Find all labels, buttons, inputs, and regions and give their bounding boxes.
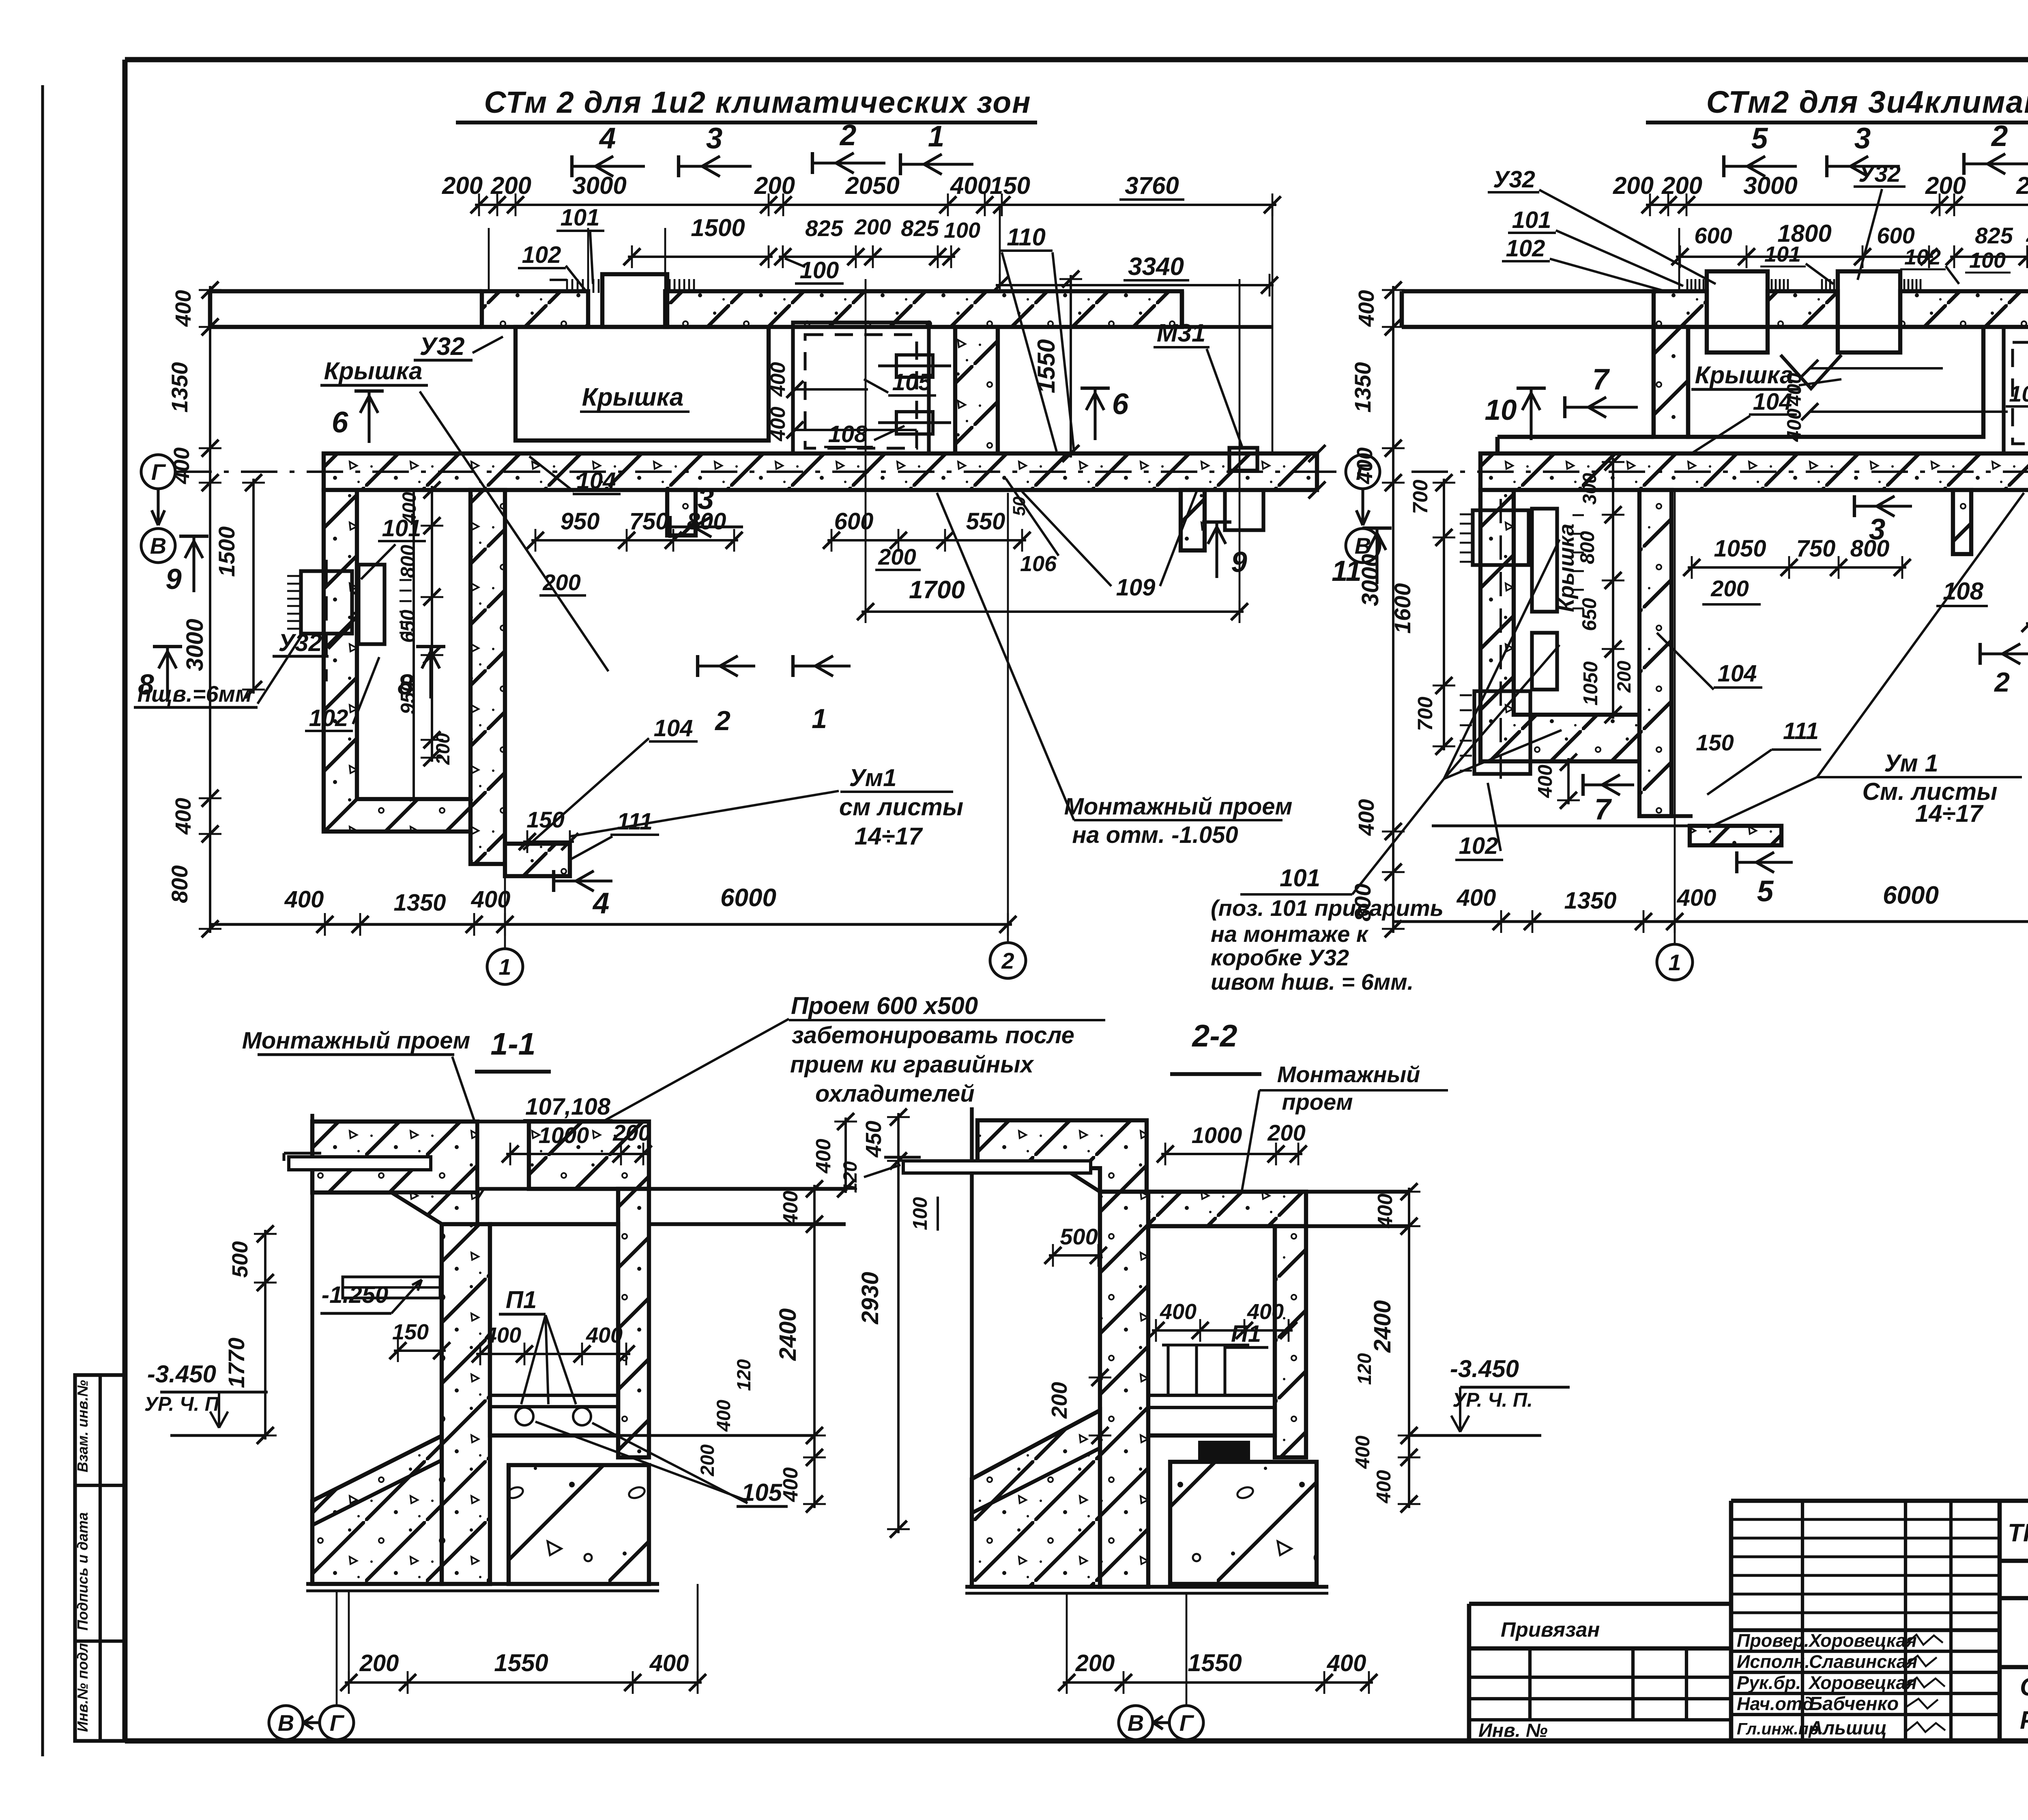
svg-text:400: 400 [484,1323,521,1347]
plan2 bottom slab strip [1690,826,1781,845]
s22 right dim chain [1408,1188,1410,1508]
svg-text:700: 700 [1414,696,1437,731]
s22 funnel slope [1071,1173,1100,1192]
plan1 mid dim row left [531,539,738,541]
svg-text:100: 100 [800,257,839,284]
plan2 axis 1 circle [1674,876,1676,944]
svg-text:200: 200 [696,1444,718,1476]
s22 foundation diagonal band [972,1410,1100,1587]
svg-text:3000: 3000 [1357,554,1384,606]
svg-text:100: 100 [1969,248,2006,273]
svg-text:104: 104 [1718,660,1757,687]
s11 400 400 dims [476,1353,630,1355]
svg-text:1-1: 1-1 [490,1027,535,1061]
svg-text:прием ки гравийных: прием ки гравийных [790,1051,1035,1078]
svg-text:Нач.отд: Нач.отд [1737,1693,1813,1714]
plan1 pier under corridor 1 [667,490,696,535]
svg-text:В: В [1128,1710,1144,1736]
svg-text:400: 400 [171,290,195,327]
svg-text:1000: 1000 [539,1122,589,1148]
svg-text:1: 1 [812,703,827,734]
svg-text:150: 150 [392,1320,429,1344]
svg-text:400: 400 [398,492,420,524]
svg-text:400: 400 [586,1323,623,1347]
plan2 top-left open room outline [1402,289,1654,294]
svg-text:106: 106 [1020,552,1057,576]
svg-text:У32: У32 [1493,166,1535,193]
plan1 corridor band [324,453,1317,490]
svg-text:Рук.бр.: Рук.бр. [1737,1672,1801,1693]
svg-text:102: 102 [1506,235,1545,262]
s11 chamber floor lines [490,1394,618,1397]
s22 right wall hatched [1275,1226,1306,1457]
svg-text:3: 3 [698,483,714,516]
svg-text:400: 400 [1677,885,1716,911]
svg-text:-3.450: -3.450 [1450,1355,1519,1382]
sheet frame [125,57,2028,62]
svg-text:1500: 1500 [691,214,745,241]
svg-text:Инв.№ подл.: Инв.№ подл. [74,1639,91,1732]
svg-text:1700: 1700 [909,576,965,604]
plan1 axis circle G [141,455,175,489]
svg-text:101: 101 [1764,242,1801,266]
svg-text:2050: 2050 [2016,172,2028,199]
s11 ground double line [306,1582,659,1586]
svg-text:коробке У32: коробке У32 [1211,945,1349,970]
plan1 axis 2 circle [1007,493,1009,943]
svg-text:ТП А-II-600-338.86: ТП А-II-600-338.86 [2008,1519,2028,1547]
svg-text:400: 400 [1457,885,1496,911]
s22 500 dim [1049,1254,1102,1257]
svg-text:200: 200 [442,172,483,199]
svg-text:Провер.: Провер. [1737,1630,1809,1651]
plan2 axis circle G [1346,455,1380,489]
svg-text:800: 800 [397,545,419,578]
s11 ledge white strip [289,1157,431,1170]
plan1 pier under corridor 2 [1181,490,1205,550]
svg-text:104: 104 [654,715,693,741]
svg-text:см листы: см листы [839,793,963,821]
svg-text:на монтаже к: на монтаже к [1211,921,1369,947]
plan2 top dimension row 2 [1676,256,1933,258]
svg-text:200: 200 [490,172,531,199]
svg-text:200: 200 [1613,661,1635,693]
svg-text:Монтажный проем: Монтажный проем [242,1027,470,1054]
s22 top dims 1000 200 [1161,1153,1302,1155]
svg-text:2400: 2400 [1369,1300,1396,1353]
svg-text:400: 400 [1247,1300,1284,1324]
svg-text:5: 5 [1757,875,1774,908]
plan1 top dimension row 1 [475,204,1276,206]
svg-text:Хоровецкая: Хоровецкая [1808,1630,1917,1651]
svg-text:Г: Г [330,1710,345,1736]
s22 left dim chain [897,1113,900,1533]
svg-text:105: 105 [2009,381,2028,406]
svg-text:400: 400 [170,447,194,484]
svg-text:Крышка: Крышка [324,357,423,385]
svg-text:400: 400 [713,1400,734,1432]
svg-text:Разрезы 1-1, 2-2.: Разрезы 1-1, 2-2. [2020,1706,2028,1734]
s11 150 dim [394,1349,446,1352]
svg-text:6: 6 [1112,388,1129,421]
svg-text:200: 200 [542,569,580,595]
svg-text:1000: 1000 [1192,1122,1242,1148]
svg-text:200: 200 [754,172,795,199]
plan1 bolts 105 108 [896,355,933,377]
svg-text:100: 100 [944,218,980,243]
plan2 floor line left [1432,824,1690,827]
svg-text:У32: У32 [420,333,465,361]
svg-text:3: 3 [1854,122,1871,155]
s11 level line right [618,1434,815,1437]
svg-text:200: 200 [359,1650,399,1676]
plan1 axis circle V [141,529,175,563]
svg-text:600: 600 [1877,223,1914,248]
svg-text:200: 200 [612,1120,651,1145]
svg-text:1600: 1600 [1390,583,1415,634]
svg-text:Подпись и дата: Подпись и дата [74,1512,91,1631]
svg-text:Крышка: Крышка [1695,361,1794,389]
svg-text:120: 120 [1353,1353,1375,1385]
svg-text:Славинская: Славинская [1809,1651,1917,1672]
svg-text:400: 400 [1373,1470,1395,1504]
svg-text:7: 7 [1592,363,1610,396]
svg-text:101: 101 [561,204,600,231]
s22 chamber [1148,1226,1275,1435]
plan1 well box U32 [602,274,667,327]
svg-text:108: 108 [1943,578,1984,605]
plan1 G to V arrow [157,489,159,525]
svg-text:102: 102 [1904,245,1941,269]
s11 right slab lines [649,1187,846,1190]
s11 top ceiling hatched block [312,1122,477,1193]
svg-text:120: 120 [733,1359,754,1391]
s11 left dim chain [264,1230,266,1440]
svg-text:2: 2 [1994,667,2010,698]
svg-text:400: 400 [1783,373,1805,406]
svg-text:110: 110 [1007,223,1046,251]
s22 black bracket [1200,1442,1248,1460]
svg-text:1500: 1500 [214,526,239,577]
svg-text:2: 2 [1991,120,2008,153]
svg-text:Альшиц: Альшиц [1809,1717,1887,1738]
plan1 M31 box [1229,448,1257,471]
svg-text:У32: У32 [278,629,322,656]
svg-text:200: 200 [432,733,453,765]
svg-text:400: 400 [779,1190,802,1225]
plan1 bottom dim row [210,923,1012,926]
svg-text:300: 300 [1579,473,1600,505]
svg-text:6000: 6000 [1883,881,1939,909]
svg-text:600: 600 [834,508,874,535]
svg-text:500: 500 [1060,1224,1098,1249]
svg-text:Хоровецкая: Хоровецкая [1808,1672,1917,1693]
s22 anchor comb P1 [1167,1345,1169,1395]
svg-text:М31: М31 [1157,319,1206,347]
plan1 axis 1 circle [504,876,506,949]
s22 left wall line [970,1107,973,1587]
svg-text:650: 650 [397,610,419,643]
plan2 top dimension row 1 [1646,204,2028,206]
plan2 dim 1700 [2026,622,2028,625]
s22 ground double line [965,1585,1328,1588]
svg-text:1: 1 [498,954,511,980]
svg-text:3000: 3000 [182,619,208,671]
plan2 left lower wall [1480,490,1639,761]
s22 top hatched mass [977,1120,1147,1192]
plan2 funnel V between wells [1781,355,1841,389]
plan2 axis circle V [1346,529,1380,563]
svg-text:Крышка: Крышка [582,383,684,411]
s22 foundation coarse block [1170,1462,1317,1584]
svg-text:200: 200 [1047,1382,1072,1419]
svg-text:111: 111 [1783,718,1819,744]
svg-text:450: 450 [861,1121,886,1158]
svg-text:1050: 1050 [1580,661,1602,705]
title block grid [1731,1499,2028,1503]
plan1 left vertical dim chain [209,286,211,933]
plan1 mid vertical wall [470,490,505,864]
s22 right slab lines [1306,1190,1409,1193]
svg-text:650: 650 [1579,598,1600,631]
svg-text:500: 500 [228,1241,252,1278]
svg-text:проем: проем [1282,1089,1353,1115]
svg-text:2930: 2930 [857,1272,883,1324]
plan1 section 2 mark middle [698,664,755,667]
plan1 left lower wall L-shape [324,490,470,832]
svg-text:на отм. -1.050: на отм. -1.050 [1072,822,1238,848]
svg-text:5: 5 [1751,122,1768,155]
svg-text:УР. Ч. П.: УР. Ч. П. [1452,1389,1533,1411]
plan2 montage dashed square [2004,327,2028,460]
svg-text:10: 10 [1485,394,1517,426]
svg-text:2: 2 [714,705,730,736]
svg-text:200: 200 [1613,172,1654,199]
svg-text:Ум1: Ум1 [849,764,897,791]
svg-text:П1: П1 [1231,1321,1261,1347]
svg-text:3760: 3760 [1125,172,1179,199]
s11 central stem hatched [442,1224,490,1584]
s22 central stem hatched [1100,1192,1148,1587]
svg-text:102: 102 [522,242,561,268]
svg-text:1050: 1050 [1714,535,1766,562]
svg-text:1350: 1350 [393,890,446,916]
s11 bottom dims [345,1681,702,1684]
svg-text:107,108: 107,108 [525,1094,610,1120]
svg-text:200: 200 [1267,1120,1305,1145]
svg-text:150: 150 [1696,730,1734,755]
s11 top dims 1000 200 [506,1153,647,1155]
svg-text:550: 550 [966,508,1005,535]
svg-text:200: 200 [1925,172,1966,199]
svg-text:800: 800 [1577,531,1598,564]
svg-text:Г: Г [151,459,166,485]
svg-text:Монтажный: Монтажный [1277,1061,1420,1087]
s11 left wall line [310,1114,314,1584]
svg-text:3: 3 [1869,513,1886,546]
plan1 section 1 mark middle [793,664,851,667]
svg-text:400: 400 [766,362,789,397]
svg-text:3: 3 [706,122,723,155]
plan1 dim 1700 [861,610,1244,613]
plan2 mid dim row left [1688,566,1906,569]
svg-text:1350: 1350 [1350,362,1375,413]
svg-text:400: 400 [284,886,324,913]
s11 axis circles bottom [269,1706,303,1740]
svg-text:8: 8 [138,669,154,701]
svg-text:700: 700 [1409,479,1432,514]
svg-text:825: 825 [805,215,843,241]
plan1 montage opening dashed square [793,322,929,460]
plan1 dim chain room heights [431,486,433,762]
svg-text:400: 400 [1354,290,1379,327]
svg-text:Инв. №: Инв. № [1478,1719,1548,1741]
plan2 bottom section mark 5 [1737,861,1793,864]
svg-text:В: В [278,1710,294,1736]
svg-text:Проем 600 х500: Проем 600 х500 [791,992,978,1019]
plan1 inner room line [412,490,415,799]
plan2 wall left of kryshka room [1654,327,1688,437]
svg-text:200: 200 [1075,1650,1115,1676]
svg-text:4: 4 [599,122,616,155]
svg-text:400: 400 [1534,765,1556,798]
svg-text:108: 108 [828,421,868,447]
s11 top right band hatched [529,1122,649,1189]
s22 ledge strip [903,1161,1091,1173]
svg-text:400: 400 [1353,447,1377,484]
svg-text:101: 101 [1512,207,1551,233]
svg-text:1550: 1550 [1033,339,1060,393]
svg-text:Крышка: Крышка [1554,524,1579,612]
plan1 left top wall outline [210,289,482,294]
svg-text:1350: 1350 [167,362,192,413]
svg-text:400: 400 [171,798,195,835]
plan2 well boxes [1707,271,1768,352]
svg-text:2-2: 2-2 [1191,1019,1237,1053]
svg-text:В: В [150,533,166,559]
svg-text:750: 750 [1796,535,1836,562]
svg-text:У32: У32 [1858,161,1901,187]
svg-text:3000: 3000 [572,172,626,199]
svg-text:800: 800 [167,865,192,903]
svg-text:950: 950 [561,508,600,535]
svg-text:УР. Ч. П: УР. Ч. П [144,1393,220,1415]
plan1 U32 connector cluster [301,571,352,634]
svg-text:(поз. 101 приварить: (поз. 101 приварить [1211,895,1444,921]
svg-text:1: 1 [1668,950,1681,975]
s11 foundation coarse block [509,1465,649,1584]
plan1 1550 vertical dim [1070,275,1072,458]
plan1 axis G dash line [175,471,1334,473]
plan2 kryshka room [1688,327,1983,437]
svg-text:Монтажный проем: Монтажный проем [1064,793,1293,820]
svg-text:950: 950 [397,681,419,714]
svg-text:2050: 2050 [845,172,899,199]
svg-text:109: 109 [1116,574,1156,601]
svg-text:104: 104 [577,468,616,494]
plan2 corridor band [1480,453,2028,490]
svg-text:400: 400 [1160,1300,1197,1324]
svg-text:200: 200 [854,215,891,239]
plan1 mid dim row right [827,539,1026,541]
plan2 extension verticals [1674,490,1676,876]
plan2 mid vertical wall [1639,490,1671,816]
s22 bottom dims [1063,1681,1373,1684]
s11 right column hatched [618,1189,649,1457]
svg-text:охладителей: охладителей [815,1081,975,1107]
svg-text:2: 2 [1001,948,1014,973]
s22 band over chamber hatched [1148,1192,1306,1226]
s11 anchor circles [516,1407,533,1425]
svg-text:2400: 2400 [775,1308,801,1361]
plan2 400 dim lower [1567,758,1570,804]
plan2 section mark 7 bottom [1583,783,1634,786]
svg-text:забетонировать после: забетонировать после [792,1022,1074,1049]
svg-text:102: 102 [309,705,348,731]
svg-text:400: 400 [1327,1650,1366,1676]
svg-text:Г: Г [1179,1710,1194,1736]
plan2 left vertical dim chain [1392,286,1394,933]
plan2 U32 connector stack [1473,510,1529,565]
svg-text:825: 825 [1975,223,2013,248]
s22 chamber floor lines [1148,1394,1275,1397]
svg-text:1350: 1350 [1564,887,1616,914]
svg-text:9: 9 [165,563,182,595]
plan2 axis G dash line [1411,471,2028,473]
plan2 pier under corridor [1953,490,1971,554]
svg-text:швом hшв. = 6мм.: швом hшв. = 6мм. [1211,969,1414,995]
left sidebar table [75,1375,125,1741]
plan2 top slab band hatched [1654,291,1707,327]
plan1 top slab band hatched [482,291,588,327]
svg-text:400: 400 [766,406,789,441]
s11 right dim chain [813,1185,816,1508]
svg-text:3000: 3000 [1743,172,1797,199]
svg-text:П1: П1 [506,1286,537,1313]
plan1 top dimension row 2 [628,256,773,258]
svg-text:Бабченко: Бабченко [1809,1693,1899,1714]
s22 axis circles bottom [1119,1706,1153,1740]
svg-text:200: 200 [1710,576,1749,601]
svg-text:600: 600 [1694,223,1732,248]
plan1 inner vertical dim chain [252,479,255,694]
svg-text:750: 750 [629,508,669,535]
plan1 kryshka room [516,327,769,440]
svg-text:3340: 3340 [1128,253,1184,281]
svg-text:150: 150 [526,807,564,832]
svg-text:200: 200 [2026,223,2028,246]
svg-text:Взам. инв.№: Взам. инв.№ [74,1380,91,1472]
svg-text:14÷17: 14÷17 [855,823,923,850]
svg-text:400: 400 [950,172,991,199]
svg-text:Ум 1: Ум 1 [1884,750,1938,777]
svg-text:6: 6 [332,406,348,439]
svg-text:200: 200 [1661,172,1702,199]
svg-text:101: 101 [1280,864,1320,892]
s11 bolt top [343,1277,440,1298]
svg-text:7: 7 [1594,793,1612,826]
svg-text:1550: 1550 [494,1649,548,1676]
svg-text:400: 400 [779,1467,802,1502]
svg-text:СТм 2 для 1и2 климатических з: СТм 2 для 1и2 климатических зон [484,85,1031,119]
svg-text:200: 200 [878,544,916,569]
sheet outer thin line [41,85,44,1756]
svg-text:Привязан: Привязан [1501,1618,1600,1641]
svg-text:4: 4 [592,887,610,920]
svg-text:400: 400 [1373,1193,1396,1228]
svg-text:6000: 6000 [720,884,776,912]
svg-text:Исполн.: Исполн. [1737,1651,1810,1672]
